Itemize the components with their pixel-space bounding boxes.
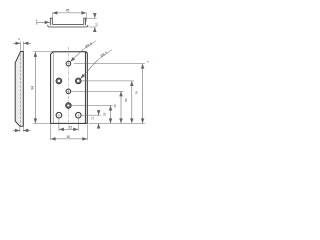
svg-text:25: 25 bbox=[69, 125, 73, 129]
side view hidden line (dashed) bbox=[20, 54, 22, 126]
left leader tick bbox=[36, 19, 38, 24]
side bottom dim extensions bbox=[20, 127, 23, 132]
svg-text:11: 11 bbox=[91, 116, 95, 119]
left leader line with arrow bbox=[37, 21, 50, 23]
dim 56 line bbox=[131, 81, 133, 124]
hole M left outer bbox=[56, 78, 62, 84]
hole B right ticks bbox=[75, 112, 82, 119]
dim 25 extensions bbox=[59, 119, 78, 131]
svg-text:56: 56 bbox=[124, 98, 128, 102]
dim 45 line bbox=[52, 12, 86, 14]
leader dia 6.5 bbox=[80, 60, 97, 79]
row ext pair M bbox=[82, 80, 135, 82]
svg-text:3: 3 bbox=[18, 37, 20, 41]
svg-text:94: 94 bbox=[31, 86, 35, 90]
hole T top bbox=[66, 61, 71, 66]
hole C4 bbox=[66, 89, 71, 94]
hole C4 ticks bbox=[65, 88, 71, 94]
row ext C4 bbox=[71, 90, 123, 92]
profile height dim extensions bbox=[86, 18, 97, 27]
side bottom dim arrows bbox=[13, 130, 20, 132]
dim 40 line bbox=[120, 91, 122, 123]
hole X inner bbox=[67, 104, 70, 107]
profile plate bottom line with upturned ends bbox=[48, 25, 88, 27]
right fold line bbox=[84, 52, 86, 124]
hole M right ticks bbox=[75, 77, 82, 84]
hole M right inner bbox=[77, 79, 80, 82]
side top dim extensions bbox=[21, 41, 24, 50]
bottom reference extension bbox=[89, 122, 145, 124]
svg-text:Ø6.5: Ø6.5 bbox=[100, 51, 108, 58]
dim 76 line bbox=[142, 64, 144, 124]
hole B right bbox=[76, 112, 82, 118]
hole B left bbox=[56, 112, 62, 118]
leader dia 3.5 landing bbox=[83, 41, 96, 50]
dim 25v line bbox=[110, 106, 112, 124]
dim 50 extensions bbox=[51, 124, 88, 140]
hole M right outer bbox=[76, 78, 82, 84]
dim 94 bottom extension bbox=[33, 122, 50, 124]
right flange hook bbox=[84, 18, 86, 25]
side view body bbox=[15, 51, 23, 126]
row ext top hole bbox=[74, 63, 145, 65]
dim 25 line bbox=[59, 128, 78, 130]
dim 50 line bbox=[51, 138, 88, 140]
profile plate top line bbox=[52, 23, 83, 25]
svg-text:Ø3.5: Ø3.5 bbox=[84, 42, 93, 49]
svg-text:25: 25 bbox=[103, 112, 107, 116]
svg-text:45: 45 bbox=[66, 8, 70, 12]
leader dia 6.5 landing bbox=[98, 50, 112, 60]
svg-text:10: 10 bbox=[95, 22, 99, 26]
hole B left ticks bbox=[55, 112, 62, 119]
dim 94 top extension bbox=[33, 51, 53, 53]
svg-text:2: 2 bbox=[26, 128, 28, 132]
row ext X bbox=[72, 105, 113, 107]
dim 94 line bbox=[34, 52, 36, 124]
leader dia 3.5 bbox=[70, 50, 83, 62]
vertical centerline bbox=[67, 47, 69, 128]
svg-text:76: 76 bbox=[135, 91, 139, 95]
hole M left ticks bbox=[55, 77, 62, 84]
dim 45 extension left bbox=[51, 13, 53, 20]
side top dim arrows bbox=[13, 42, 21, 44]
hole X center bbox=[66, 103, 71, 108]
left flange hook bbox=[50, 18, 52, 25]
front view outline bbox=[51, 52, 88, 124]
left fold line bbox=[52, 52, 54, 124]
stray teal mark bbox=[147, 61, 149, 63]
svg-text:50: 50 bbox=[67, 135, 71, 139]
svg-text:40: 40 bbox=[113, 104, 117, 108]
hole T ticks bbox=[65, 60, 71, 66]
profile height dim arrows bbox=[94, 14, 96, 19]
hole X cross ticks bbox=[66, 103, 71, 108]
dim 11 arrows outside bbox=[98, 110, 100, 115]
hole M left inner bbox=[57, 79, 60, 82]
dim 45 extension right bbox=[85, 13, 87, 22]
row ext pair B bbox=[82, 114, 101, 116]
